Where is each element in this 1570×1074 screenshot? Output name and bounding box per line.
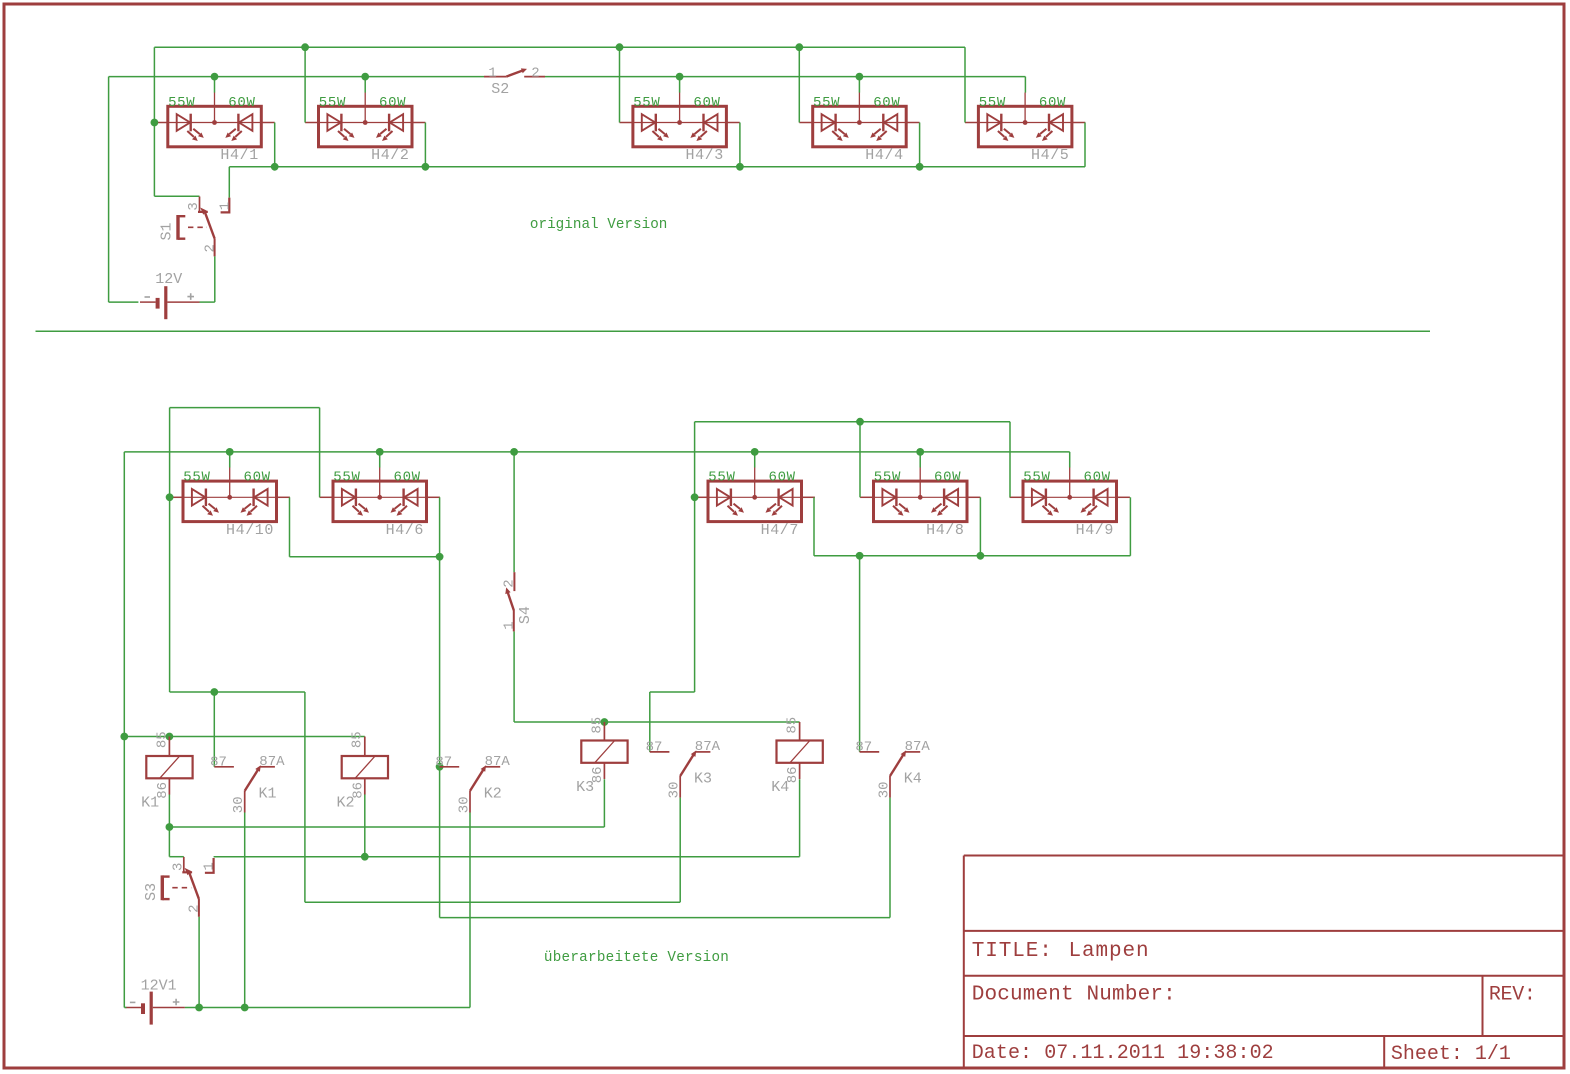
svg-text:2: 2 — [531, 65, 539, 81]
svg-text:1: 1 — [217, 202, 233, 210]
svg-text:30: 30 — [667, 781, 683, 798]
wire net B drop to H4/5 center pin — [1024, 77, 1026, 93]
wire across to K4 pin 30 — [440, 917, 890, 919]
svg-text:Lampen: Lampen — [1069, 940, 1150, 963]
junction net C / H4/2 — [422, 163, 430, 171]
junction net C / H4/3 — [736, 163, 744, 171]
junction K2 pin 87 — [436, 763, 444, 771]
lamp H4/8 — [860, 467, 980, 521]
svg-text:K3: K3 — [694, 771, 712, 788]
switch S2 — [484, 68, 545, 76]
junction net E lamp feed — [916, 448, 924, 456]
minus sign 12V1 — [130, 1001, 136, 1003]
wire to S1 pin 3 — [154, 195, 199, 197]
wire drop to H4/6 left pin — [319, 408, 321, 498]
wire stub to lamp center pin — [679, 77, 681, 93]
junction net B lamp feed — [856, 73, 864, 81]
wire riser H4/7 right pin — [813, 497, 815, 556]
svg-text:S3: S3 — [143, 883, 160, 901]
wire net B left of S2 — [109, 76, 484, 78]
junction net F / H4/8 — [856, 418, 864, 426]
svg-text:87A: 87A — [259, 754, 285, 770]
minus sign 12V — [145, 296, 151, 298]
wire drop to H4/8 left pin — [859, 422, 861, 498]
wire drop to H4/4 left pin — [798, 47, 800, 122]
battery 12V1 — [125, 992, 184, 1025]
separator line between versions — [36, 330, 1431, 332]
junction S3-2 / battery plus — [195, 1004, 203, 1012]
svg-text:30: 30 — [877, 781, 893, 798]
svg-text:2: 2 — [187, 904, 203, 912]
wire net G down to K4 pin 87 — [859, 556, 861, 752]
junction K3 pin 85 — [601, 718, 609, 726]
svg-text:H4/4: H4/4 — [865, 147, 903, 164]
wire net A top bus — [154, 46, 965, 48]
svg-text:87: 87 — [435, 755, 452, 771]
svg-text:H4/2: H4/2 — [371, 147, 409, 164]
wire riser H4/5 right pin — [1084, 123, 1086, 167]
junction net E lamp feed — [226, 448, 234, 456]
wire S1 pin 2 to battery plus — [214, 256, 216, 302]
wire left edge down to battery 12V1 — [123, 452, 125, 1008]
wire to S3 pin 3 — [169, 856, 183, 858]
junction left edge / coil supply — [120, 733, 128, 741]
svg-text:1: 1 — [202, 862, 218, 870]
junction net B lamp feed — [676, 73, 684, 81]
svg-text:Date: 07.11.2011 19:38:02: Date: 07.11.2011 19:38:02 — [972, 1042, 1274, 1065]
svg-text:S4: S4 — [517, 606, 534, 624]
junction K1 pin 87 feed — [210, 688, 218, 696]
svg-text:H4/8: H4/8 — [926, 522, 964, 539]
lamp H4/5 — [965, 93, 1085, 147]
svg-text:Document Number:: Document Number: — [972, 984, 1176, 1007]
svg-text:87A: 87A — [485, 754, 511, 770]
wire net F top link H4/7-H4/9 — [695, 421, 1010, 423]
wire H4/7 net jog — [650, 691, 695, 693]
wire H4/6 right pin down to K2 pin 87 — [439, 497, 441, 767]
wire drop to H4/3 left pin — [619, 47, 621, 122]
wire K3 pin 86 drop — [603, 779, 605, 827]
junction K2 pin 86 — [361, 853, 369, 861]
wire net A left drop to H4/1 and S1 — [153, 47, 155, 196]
svg-text:12V1: 12V1 — [141, 977, 177, 994]
junction K1-86 / K3-86 net — [166, 823, 174, 831]
svg-text:85: 85 — [154, 731, 170, 748]
svg-text:85: 85 — [785, 717, 801, 734]
svg-text:87A: 87A — [905, 739, 931, 755]
wire stub to lamp center pin — [214, 77, 216, 93]
junction net B lamp feed — [211, 73, 219, 81]
svg-text:12V: 12V — [155, 271, 182, 288]
relay coil K1 — [146, 737, 192, 795]
wire S4 pin 1 down — [513, 631, 515, 722]
wire net E down to S4 pin 2 — [513, 452, 515, 572]
svg-text:87: 87 — [210, 755, 227, 771]
svg-text:H4/3: H4/3 — [686, 147, 724, 164]
relay contact K4 — [860, 750, 921, 797]
wire K1 pin 30 down to battery plus — [244, 813, 246, 1008]
plus sign 12V1 — [173, 999, 180, 1006]
svg-text:Sheet: 1/1: Sheet: 1/1 — [1391, 1043, 1511, 1066]
relay coil K3 — [581, 722, 627, 779]
lamp H4/4 — [799, 93, 919, 147]
lamp H4/6 — [320, 467, 440, 521]
lamp H4/3 — [620, 93, 740, 147]
wire corner to battery minus — [124, 1007, 126, 1009]
junction net E lamp feed — [376, 448, 384, 456]
svg-text:85: 85 — [589, 717, 605, 734]
junction net B lamp feed — [361, 73, 369, 81]
relay contact K3 — [650, 750, 711, 797]
svg-text:30: 30 — [231, 796, 247, 813]
wire net D top link H4/10-H4/6 — [170, 407, 320, 409]
junction net G / K4-87 — [856, 552, 864, 560]
wire riser H4/8 right pin — [979, 497, 981, 556]
wire riser H4/1 right pin — [274, 123, 276, 167]
wire K2-87 net down — [439, 767, 441, 918]
svg-text:K2: K2 — [337, 795, 355, 812]
junction net A / H4/4 — [795, 43, 803, 51]
junction net E / S4 — [510, 448, 518, 456]
wire riser H4/4 right pin — [919, 123, 921, 167]
junction H4/6 right pin net — [436, 553, 444, 561]
relay coil K4 — [777, 722, 823, 779]
svg-text:TITLE:: TITLE: — [972, 940, 1053, 963]
wire K3 pin 30 drop — [679, 798, 681, 903]
wire stub to lamp center pin — [379, 452, 381, 468]
svg-text:H4/1: H4/1 — [220, 147, 258, 164]
svg-text:2: 2 — [202, 244, 218, 252]
svg-text:85: 85 — [350, 731, 366, 748]
wire S3 pin 2 down to battery plus — [198, 917, 200, 1008]
wire net E drop to H4/9 center pin — [1069, 452, 1071, 468]
lamp H4/7 — [695, 467, 815, 521]
svg-text:K4: K4 — [771, 779, 789, 796]
wire H4/10 left pin drop — [169, 408, 171, 692]
wire stub to lamp center pin — [754, 452, 756, 468]
relay coil K2 — [342, 737, 388, 795]
junction K1 pin 85 — [166, 733, 174, 741]
svg-text:S1: S1 — [159, 222, 176, 240]
junction H4/10 left pin — [166, 493, 174, 501]
junction net C / H4/1 — [271, 163, 279, 171]
wire net E bottom bus — [124, 451, 1069, 453]
svg-text:3: 3 — [186, 202, 202, 210]
wire K1-86 to K3-86 — [169, 826, 604, 828]
svg-text:87: 87 — [646, 740, 663, 756]
wire across to K3 pin 30 — [305, 901, 680, 903]
wire stub to lamp center pin — [229, 452, 231, 468]
svg-text:H4/7: H4/7 — [761, 522, 799, 539]
wire K2 pin 30 down to battery plus — [469, 813, 471, 1008]
svg-text:87A: 87A — [695, 739, 721, 755]
wire stub to lamp center pin — [919, 452, 921, 468]
wire drop to H4/5 left pin — [964, 47, 966, 122]
lamp H4/9 — [1010, 467, 1130, 521]
wire net H across to K1 — [170, 691, 305, 693]
switch S4 — [505, 572, 514, 631]
plus sign 12V — [187, 293, 194, 300]
wire stub to lamp center pin — [858, 77, 860, 93]
wire riser H4/9 right pin — [1129, 497, 1131, 556]
wire drop to H4/2 left pin — [304, 47, 306, 122]
wire riser H4/2 right pin — [424, 123, 426, 167]
wire left edge down to battery minus — [108, 77, 110, 303]
wire riser H4/10 right pin — [289, 497, 291, 557]
svg-text:K4: K4 — [904, 771, 922, 788]
svg-text:K1: K1 — [141, 795, 159, 812]
svg-text:REV:: REV: — [1489, 984, 1536, 1007]
svg-text:30: 30 — [457, 796, 473, 813]
wire to battery 12V minus — [109, 301, 139, 303]
junction net A / H4/3 — [616, 43, 624, 51]
wire K4 pin 30 drop — [889, 798, 891, 918]
wire drop to H4/9 left pin — [1009, 422, 1011, 498]
wire H4/7 left pin drop — [694, 422, 696, 692]
wire net G link right lamps — [814, 555, 1130, 557]
svg-text:überarbeitete Version: überarbeitete Version — [544, 950, 729, 966]
wire K1 pin 86 down — [168, 794, 170, 857]
junction net E lamp feed — [751, 448, 759, 456]
relay contact K2 — [440, 765, 501, 812]
svg-text:H4/9: H4/9 — [1076, 522, 1114, 539]
svg-text:S2: S2 — [491, 81, 509, 98]
wire down to K3 pin 87 — [649, 692, 651, 752]
svg-text:K3: K3 — [576, 779, 594, 796]
lamp H4/1 — [154, 93, 274, 147]
title block outline — [964, 856, 1564, 1069]
junction H4/1 left pin — [151, 119, 159, 127]
svg-text:87: 87 — [855, 740, 872, 756]
wire K2 pin 86 drop — [364, 794, 366, 857]
svg-text:K2: K2 — [484, 785, 502, 802]
wire net B right of S2 — [545, 76, 1025, 78]
switch S1 — [178, 197, 229, 257]
svg-text:H4/5: H4/5 — [1031, 147, 1069, 164]
junction net G / H4/8 — [977, 552, 985, 560]
junction H4/7 left pin — [691, 493, 699, 501]
switch S3 — [162, 857, 213, 917]
lamp H4/10 — [170, 467, 290, 521]
junction net C / H4/4 — [916, 163, 924, 171]
wire stub to lamp center pin — [364, 77, 366, 93]
lamp H4/2 — [305, 93, 425, 147]
svg-text:1: 1 — [488, 65, 496, 81]
wire K4 pin 86 drop — [799, 779, 801, 857]
svg-text:H4/6: H4/6 — [386, 522, 424, 539]
svg-text:2: 2 — [501, 579, 517, 587]
battery 12V — [140, 286, 200, 319]
wire S4 to K3/K4 coils — [514, 721, 800, 723]
wire net C bottom bus — [229, 166, 1085, 168]
wire battery plus segment — [200, 301, 215, 303]
junction K1-30 / battery plus — [241, 1004, 249, 1012]
wire link H4/10-H4/6 right pins — [290, 556, 440, 558]
wire down to K1 pin 87 — [213, 692, 215, 767]
wire riser H4/3 right pin — [739, 123, 741, 167]
wire net C drop to S1 pin 1 — [228, 167, 230, 198]
svg-text:1: 1 — [501, 621, 517, 629]
junction net A / H4/2 — [301, 43, 309, 51]
svg-text:H4/10: H4/10 — [226, 522, 274, 539]
relay contact K1 — [214, 765, 275, 812]
wire net coil supply K1 K2 — [124, 736, 364, 738]
svg-text:K1: K1 — [259, 785, 277, 802]
wire net H down — [304, 692, 306, 902]
wire battery 12V1 plus bus — [185, 1007, 470, 1009]
svg-text:3: 3 — [170, 863, 186, 871]
svg-text:original Version: original Version — [530, 217, 668, 233]
wire S3 pin 1 bus — [214, 856, 800, 858]
